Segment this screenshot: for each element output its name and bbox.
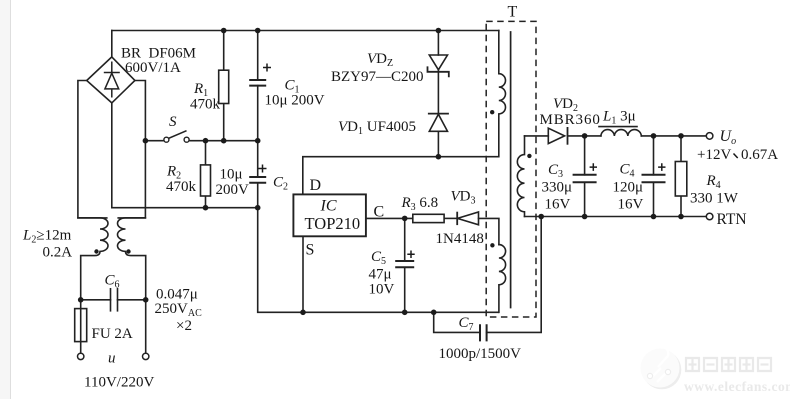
svg-text:0.2A: 0.2A <box>43 244 73 260</box>
svg-text:C4: C4 <box>620 162 635 180</box>
svg-text:D: D <box>310 177 322 194</box>
svg-text:47μ: 47μ <box>369 267 392 283</box>
svg-text:C6: C6 <box>105 273 120 291</box>
svg-text:S: S <box>169 114 177 130</box>
svg-text:FU 2A: FU 2A <box>92 326 133 342</box>
svg-text:+12V: +12V <box>697 147 731 163</box>
svg-text:16V: 16V <box>545 197 571 213</box>
svg-text:C5: C5 <box>371 249 386 267</box>
svg-text:RTN: RTN <box>717 211 747 228</box>
svg-text:10V: 10V <box>369 282 395 298</box>
svg-text:C7: C7 <box>459 315 474 333</box>
svg-text:16V: 16V <box>618 197 644 213</box>
svg-text:VD3: VD3 <box>451 189 476 207</box>
svg-text:10μ: 10μ <box>220 166 243 182</box>
svg-text:C3: C3 <box>548 162 563 180</box>
svg-text:VD1 UF4005: VD1 UF4005 <box>338 119 416 137</box>
svg-text:VDZ: VDZ <box>367 51 393 69</box>
svg-text:MBR360: MBR360 <box>540 112 601 128</box>
svg-text:C2: C2 <box>273 175 288 193</box>
svg-text:1N4148: 1N4148 <box>436 231 484 247</box>
svg-text:L1 3μ: L1 3μ <box>602 109 636 127</box>
svg-text:S: S <box>306 242 315 259</box>
svg-text:R3 6.8: R3 6.8 <box>401 195 439 213</box>
svg-text:110V/220V: 110V/220V <box>84 375 154 391</box>
svg-text:470k: 470k <box>190 96 221 112</box>
svg-text:330μ: 330μ <box>542 180 573 196</box>
svg-text:10μ 200V: 10μ 200V <box>265 92 325 108</box>
svg-text:0.67A: 0.67A <box>741 147 778 163</box>
svg-text:L2≥12m: L2≥12m <box>22 228 72 246</box>
svg-text:Uo: Uo <box>720 128 737 147</box>
svg-text:470k: 470k <box>166 179 197 195</box>
svg-text:1000p/1500V: 1000p/1500V <box>439 346 522 362</box>
svg-text:330 1W: 330 1W <box>690 191 739 207</box>
svg-text:250VAC: 250VAC <box>155 301 203 319</box>
svg-text:600V/1A: 600V/1A <box>125 60 181 76</box>
svg-text:120μ: 120μ <box>613 180 644 196</box>
svg-text:×2: ×2 <box>176 318 192 334</box>
svg-text:IC: IC <box>320 198 337 215</box>
svg-text:www.elecfans.com: www.elecfans.com <box>684 379 790 394</box>
svg-text:T: T <box>508 4 518 21</box>
svg-text:BZY97—C200: BZY97—C200 <box>331 69 424 85</box>
svg-text:200V: 200V <box>216 182 250 198</box>
svg-text:R4: R4 <box>706 173 721 191</box>
svg-text:u: u <box>108 351 116 367</box>
svg-text:C: C <box>374 204 385 221</box>
svg-text:TOP210: TOP210 <box>305 214 361 233</box>
